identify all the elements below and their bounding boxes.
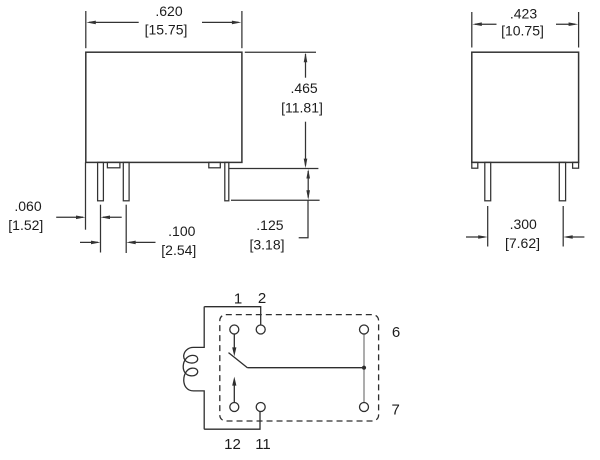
svg-text:[15.75]: [15.75] (145, 22, 188, 38)
svg-text:.465: .465 (290, 80, 317, 96)
svg-text:1: 1 (234, 291, 242, 308)
svg-text:11: 11 (255, 436, 271, 453)
svg-text:12: 12 (224, 436, 241, 453)
svg-text:.100: .100 (168, 223, 195, 239)
svg-text:7: 7 (392, 402, 400, 419)
svg-text:6: 6 (392, 324, 400, 341)
svg-text:[3.18]: [3.18] (249, 237, 284, 253)
svg-text:[2.54]: [2.54] (161, 242, 196, 258)
svg-text:2: 2 (258, 290, 266, 307)
svg-text:[1.52]: [1.52] (8, 217, 43, 233)
svg-text:.060: .060 (14, 198, 41, 214)
svg-text:[7.62]: [7.62] (505, 235, 540, 251)
svg-text:.125: .125 (256, 217, 283, 233)
svg-text:.423: .423 (510, 6, 537, 22)
svg-text:[11.81]: [11.81] (281, 100, 323, 116)
svg-text:.300: .300 (510, 216, 537, 232)
svg-text:[10.75]: [10.75] (501, 23, 544, 39)
svg-text:.620: .620 (155, 3, 182, 19)
